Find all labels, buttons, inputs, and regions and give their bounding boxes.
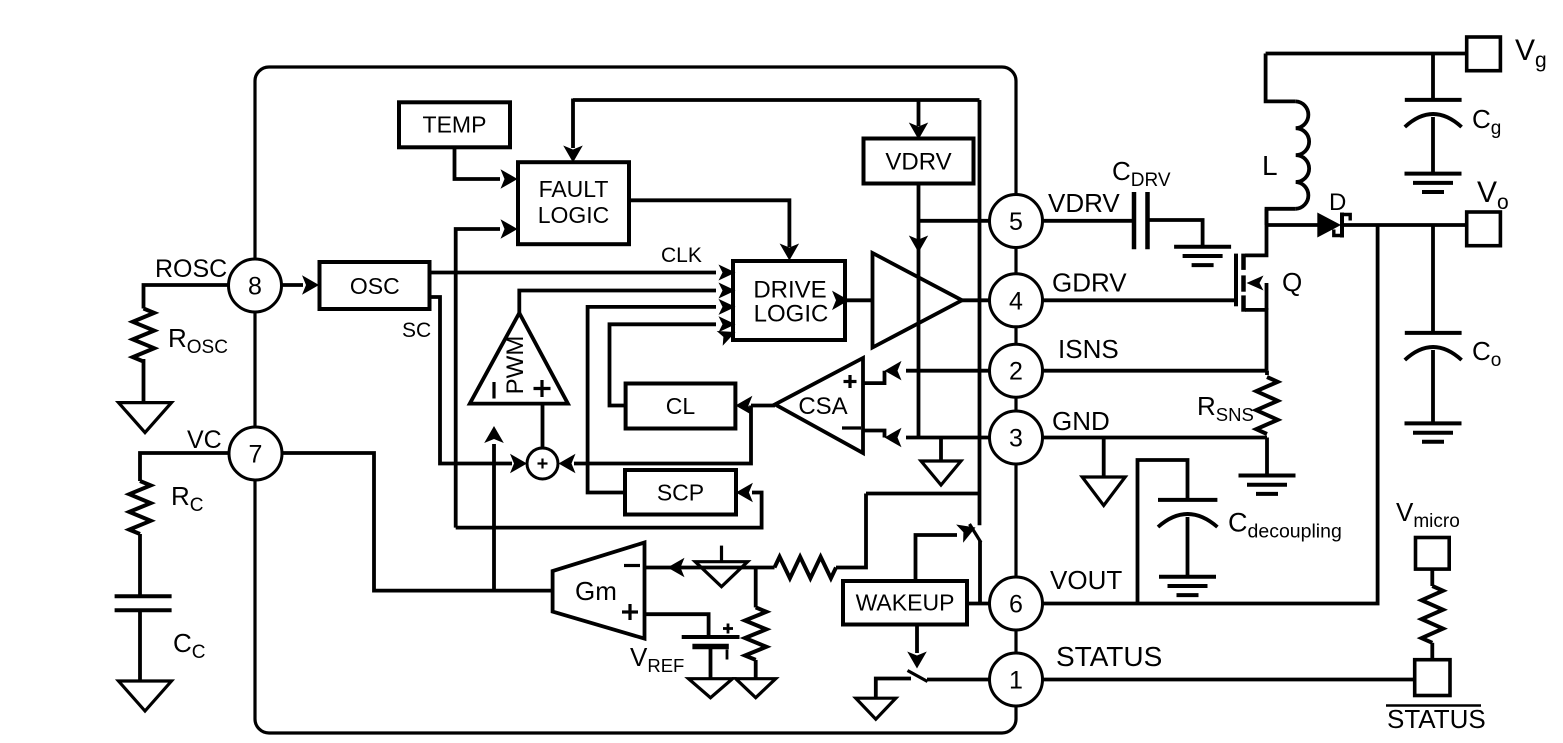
svg-text:STATUS: STATUS: [1387, 704, 1486, 734]
ground Cdecoupling earth: [1159, 575, 1216, 579]
svg-text:D: D: [1329, 189, 1346, 216]
wire Cdecoupling branch: [1138, 460, 1188, 604]
svg-text:WAKEUP: WAKEUP: [856, 590, 955, 616]
CSA plus tick: [844, 380, 857, 383]
wire feedback resistor to bias line: [836, 494, 866, 568]
capacitor Co: [1405, 331, 1462, 335]
wire VDRV rail through buffer to GND: [917, 182, 921, 438]
svg-text:1: 1: [1009, 667, 1023, 695]
svg-text:GDRV: GDRV: [1052, 268, 1127, 298]
wire FAULT LOGIC output to DRIVE LOGIC + arrow: [629, 200, 789, 247]
wire pin7 to RC: [140, 453, 230, 481]
block SCP: [625, 470, 736, 515]
svg-text:ISNS: ISNS: [1058, 334, 1119, 364]
wire CLK OSC to DRIVE LOGIC + arrow: [431, 271, 717, 275]
CSA minus tick: [842, 426, 861, 429]
svg-text:DRIVE: DRIVE: [753, 277, 826, 304]
wire divider resistor to ground: [754, 660, 758, 679]
wire buffer output to pin4: [962, 298, 990, 302]
wire Gm inverting input + arrow: [645, 566, 689, 570]
wire WAKEUP control + arrow: [916, 535, 958, 581]
svg-text:CL: CL: [666, 393, 696, 419]
PWM minus tick: [492, 382, 495, 399]
wire WAKEUP pull-down + arrow: [915, 625, 919, 654]
wire VREF to ground: [709, 647, 713, 680]
wire VC net pin7 to Gm output: [282, 453, 553, 591]
divider tap symbol: [720, 546, 723, 562]
svg-text:SCP: SCP: [657, 480, 704, 506]
wire RSNS to ground: [1265, 438, 1269, 477]
wire pin2 ISNS external: [1043, 369, 1268, 373]
svg-text:SC: SC: [402, 319, 431, 342]
label STATUS-bar: [1386, 704, 1481, 707]
wire pin8 to OSC + arrow: [282, 283, 304, 287]
battery VREF minus: [726, 650, 729, 660]
svg-text:7: 7: [249, 441, 263, 469]
svg-text:CSA: CSA: [798, 393, 847, 420]
wire CSA output to CL + arrow: [751, 404, 775, 408]
wire pin5 to CDRV: [1043, 219, 1133, 223]
wire CSA output branch to summing + arrow: [574, 406, 751, 464]
block VDRV: [864, 139, 974, 184]
transistor Q source lead: [1245, 310, 1267, 371]
wire SCP right input + arrow: [456, 493, 762, 528]
wire divider lower leg: [754, 568, 758, 608]
transistor Q gate bar: [1234, 254, 1238, 307]
resistor feedback horizontal: [775, 557, 837, 578]
ground ROSC: [119, 403, 172, 433]
wire diode to Vo node: [1344, 223, 1467, 227]
wire Gm feedback tap to bias line: [866, 492, 980, 496]
op-amp PWM: [470, 313, 568, 404]
terminal Vo: [1467, 212, 1501, 246]
wire drop to VDRV block + arrow: [917, 100, 921, 126]
wire pin4 to gate: [1043, 298, 1237, 302]
wire CL output to DRIVE LOGIC + arrow: [610, 324, 717, 405]
wire Gm non-inverting input: [645, 614, 709, 637]
wire Vg rail: [1266, 52, 1467, 56]
capacitor CDRV: [1132, 192, 1137, 249]
svg-text:VDRV: VDRV: [1048, 188, 1120, 218]
svg-text:CLK: CLK: [661, 244, 702, 267]
wire status ground stub: [876, 679, 911, 699]
wire FAULT LOGIC second input + arrow: [456, 229, 500, 528]
ground CC: [119, 681, 172, 711]
switch arm (status switch): [908, 671, 928, 682]
switch arm (wake switch): [970, 524, 982, 543]
svg-text:VDRV: VDRV: [885, 149, 951, 176]
svg-text:LOGIC: LOGIC: [538, 202, 610, 228]
wire summing to PWM plus: [541, 404, 545, 448]
block DRIVE LOGIC: [733, 261, 845, 340]
wire bias vertical to switch contact: [978, 100, 982, 525]
wire Cdecoupling to ground: [1186, 517, 1190, 577]
battery VREF plus: [723, 627, 733, 630]
block TEMP: [399, 102, 510, 147]
svg-text:TEMP: TEMP: [423, 112, 487, 138]
wire L to drain node: [1267, 209, 1296, 225]
svg-text:5: 5: [1009, 208, 1023, 236]
wire Vo feedback to pin6 VOUT: [1043, 225, 1378, 604]
terminal Vg: [1467, 37, 1501, 71]
Gm plus tick: [622, 610, 638, 613]
Gm minus tick: [624, 564, 640, 567]
pin 2: [990, 344, 1043, 397]
wire pin1 STATUS external: [1043, 678, 1415, 682]
pin 1: [990, 653, 1043, 706]
resistor RC: [129, 481, 150, 534]
resistor ROSC: [133, 309, 154, 362]
wire VDRV rail to pin5: [919, 219, 991, 223]
svg-text:8: 8: [248, 273, 262, 301]
wire DRIVE LOGIC output + arrow: [845, 298, 873, 302]
svg-text:Q: Q: [1282, 267, 1302, 297]
op-amp CSA: [775, 358, 863, 453]
transistor Q drain lead: [1245, 209, 1267, 256]
wire feedback divider line: [688, 566, 775, 570]
wire Co to ground: [1431, 350, 1435, 424]
DRIVE LOGIC fifth input arrow: [717, 331, 736, 346]
block OSC: [320, 262, 430, 309]
resistor RSNS: [1256, 377, 1277, 434]
PWM plus tick: [534, 387, 551, 390]
transistor Q channel segments: [1241, 254, 1246, 270]
battery VREF plates: [682, 635, 740, 639]
diode D (Schottky): [1317, 213, 1341, 238]
op-amp Gm: [553, 543, 645, 639]
svg-text:Gm: Gm: [575, 576, 617, 606]
wire drop to FAULT LOGIC top + arrow: [571, 99, 575, 149]
pin 5: [990, 195, 1043, 248]
summing junction circle: [527, 448, 558, 479]
svg-text:6: 6: [1009, 591, 1023, 619]
svg-text:STATUS: STATUS: [1056, 641, 1162, 672]
wire TEMP to FAULT LOGIC + arrow: [455, 148, 501, 180]
wire Vmicro to resistor: [1430, 569, 1434, 586]
svg-text:FAULT: FAULT: [539, 176, 609, 202]
svg-text:4: 4: [1009, 287, 1023, 315]
svg-text:LOGIC: LOGIC: [754, 301, 829, 328]
ground GND stub: [1102, 438, 1106, 479]
wire PWM output to DRIVE LOGIC + arrow: [519, 291, 716, 314]
wire status switch to pin1: [927, 678, 990, 682]
wire Co branch: [1431, 225, 1435, 333]
wire SC from OSC to summing node + arrow: [429, 297, 513, 464]
svg-text:2: 2: [1009, 358, 1023, 386]
ground Co earth: [1405, 421, 1462, 425]
wire SCP output to DRIVE LOGIC + arrow: [588, 307, 716, 493]
block CL: [626, 384, 736, 429]
wire ROSC resistor to ground: [142, 359, 146, 404]
pin 7: [229, 427, 282, 480]
ground internal GND: [939, 438, 943, 463]
svg-text:PWM: PWM: [502, 336, 529, 395]
wire PWM inverting input + arrow: [492, 444, 496, 591]
wire Vg rail down to L: [1266, 54, 1296, 102]
pin 4: [990, 274, 1043, 327]
capacitor Cdecoupling: [1158, 498, 1217, 502]
svg-text:ROSC: ROSC: [155, 255, 227, 283]
wire pin8 to ROSC resistor: [144, 285, 230, 309]
svg-text:L: L: [1262, 150, 1278, 181]
wire RC to CC: [138, 534, 142, 596]
ground CDRV earth: [1174, 245, 1231, 249]
wire WAKEUP to pin6: [967, 602, 990, 606]
ground status: [856, 698, 896, 719]
resistor pull-up: [1422, 586, 1443, 643]
terminal Vmicro: [1416, 538, 1450, 570]
summing junction plus: [538, 462, 548, 464]
svg-text:VOUT: VOUT: [1050, 565, 1122, 595]
ground RSNS earth: [1239, 474, 1296, 478]
terminal STATUS-bar: [1415, 660, 1450, 696]
wire CDRV to ground: [1148, 220, 1203, 247]
ground divider: [736, 679, 776, 698]
wire drain node to diode: [1267, 223, 1319, 227]
svg-text:GND: GND: [1052, 406, 1110, 436]
wire Cg branch: [1431, 54, 1435, 100]
svg-text:VC: VC: [187, 426, 222, 454]
wire ISNS pin2 to CSA plus + arrow: [906, 369, 990, 373]
resistor divider lower: [745, 607, 766, 660]
buffer amplifier: [873, 253, 963, 348]
wire Cg to ground: [1431, 117, 1435, 174]
wire pin3 GND external: [1043, 436, 1268, 440]
ground VREF: [689, 679, 733, 698]
ground Cg earth: [1405, 172, 1462, 176]
wire resistor to STATUS terminal: [1430, 643, 1434, 660]
inductor L: [1296, 101, 1309, 208]
svg-text:3: 3: [1009, 425, 1023, 453]
wire top bias line y=100: [573, 98, 980, 102]
capacitor Cg: [1405, 98, 1462, 102]
pin 6: [990, 577, 1043, 630]
pin 3: [990, 411, 1043, 464]
IC boundary (rounded rect): [255, 67, 1016, 733]
transistor Q body arrow: [1265, 283, 1269, 310]
pin 8: [229, 259, 282, 312]
svg-text:OSC: OSC: [350, 273, 400, 299]
capacitor CC: [115, 594, 172, 598]
block FAULT LOGIC: [518, 162, 629, 244]
block WAKEUP: [843, 581, 967, 625]
wire GND pin3 to CSA minus + arrow: [906, 436, 990, 440]
